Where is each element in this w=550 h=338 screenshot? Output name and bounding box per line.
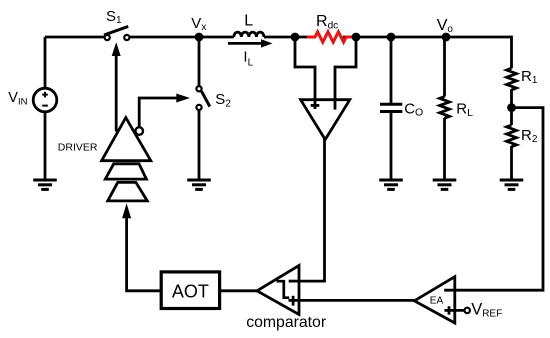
wire top rail: Rdc right lead to top-right corner, down to R1 (343, 37, 512, 68)
svg-text:R2: R2 (521, 127, 538, 145)
node Rdc right junction dot (352, 33, 361, 42)
resistor R1 (507, 68, 517, 90)
switch S2 contacts (196, 86, 201, 91)
ground (RL) (433, 180, 457, 189)
current-sense amplifier U1 (triangle pointing down) (301, 100, 350, 140)
wire: VIN bottom lead to ground (44, 112, 47, 180)
svg-text:VIN: VIN (8, 90, 27, 108)
voltage source VIN (33, 88, 57, 112)
svg-text:R1: R1 (521, 68, 538, 86)
AOT block (161, 272, 219, 309)
comparator top input stub inside (289, 280, 299, 283)
svg-text:VREF: VREF (471, 300, 502, 319)
ground (S2) (187, 180, 211, 189)
svg-text:Vo: Vo (437, 17, 454, 35)
driver inverting bubble (135, 127, 143, 135)
resistor R2 (507, 125, 517, 147)
svg-text:L: L (244, 13, 253, 30)
wire: comparator output to AOT box (220, 289, 258, 292)
wire: Rdc left node to sense amp + input (295, 37, 315, 109)
svg-text:EA: EA (430, 296, 444, 307)
node Co junction dot (387, 33, 396, 42)
wire: Vx node down to S2 top contact (198, 37, 201, 86)
wire: RL top lead from Vo node (443, 37, 446, 97)
wire top rail: S1 right contact to inductor L (129, 36, 234, 39)
wire: driver bubble up and arrow to S2 (139, 98, 177, 127)
wire top rail: VIN to S1 left contact (45, 36, 105, 39)
wire: RL bottom lead to ground (443, 118, 446, 180)
capacitor CO plates (380, 104, 402, 111)
svg-text:CO: CO (404, 100, 423, 118)
wire: S2 bottom contact down to ground (198, 110, 201, 180)
wire: R1/R2 divider node to EA top input (444, 108, 543, 291)
inductor L (234, 32, 264, 37)
wire: Co bottom lead to ground (390, 113, 393, 180)
wire: Rdc right node to sense amp - input (335, 37, 356, 110)
ground (R2) (500, 180, 524, 189)
svg-text:Vx: Vx (191, 15, 206, 33)
comparator hysteresis symbol (277, 281, 290, 298)
node R1/R2 divider junction dot (507, 103, 516, 112)
svg-text:comparator: comparator (246, 314, 326, 331)
resistor Rdc (red) (307, 32, 354, 42)
wire: Co top lead (390, 37, 393, 103)
wire: AOT output up into driver, arrow (127, 217, 162, 291)
resistor RL (440, 97, 450, 119)
switch S2 blade (202, 91, 210, 106)
wire: driver output arrow to S1 (115, 54, 118, 132)
driver buffer big triangle (102, 118, 151, 161)
svg-text:DRIVER: DRIVER (58, 142, 98, 154)
inductor current arrow IL (228, 42, 263, 45)
svg-text:AOT: AOT (172, 281, 209, 301)
svg-text:S2: S2 (215, 91, 231, 109)
svg-text:IL: IL (243, 48, 253, 68)
svg-text:RL: RL (456, 100, 473, 119)
wire: EA output to comparator + input (289, 299, 415, 302)
comparator U2 (triangle pointing left) (257, 266, 299, 315)
node Vx junction dot (195, 33, 204, 42)
comparator + input vertical stroke (292, 296, 295, 306)
driver buffer trapezoid stage 2 (105, 164, 146, 179)
svg-text:S1: S1 (106, 8, 122, 26)
node Rdc left junction dot (291, 33, 300, 42)
wire: VIN top lead (44, 37, 47, 88)
sense amp + input crossbar (311, 104, 320, 107)
wire: R1 bottom to R2 top through divider node (510, 89, 513, 125)
wire: EA + input to VREF terminal (445, 309, 465, 312)
switch S1 blade (104, 26, 128, 35)
EA + input vertical stroke (448, 306, 451, 314)
error amplifier EA (triangle pointing left) (414, 277, 454, 323)
VREF terminal circle (465, 308, 470, 313)
ground (Co) (379, 180, 403, 189)
svg-text:Rdc: Rdc (316, 13, 338, 31)
driver buffer trapezoid stage 3 (108, 182, 148, 201)
wire: R2 bottom to ground (510, 146, 513, 180)
switch S1 contacts (105, 35, 110, 40)
wire: sense amp output down to comparator top input (299, 139, 325, 282)
wire top rail: inductor L to Rdc left node (264, 36, 307, 39)
ground (VIN) (33, 180, 57, 189)
node Vo junction dot (442, 33, 451, 42)
